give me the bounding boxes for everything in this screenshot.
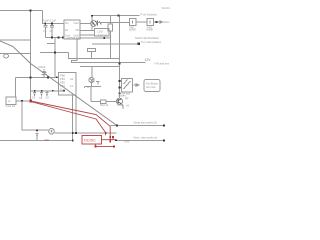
svg-text:FB: FB [76, 28, 80, 32]
svg-text:Fuse 2A: Fuse 2A [6, 104, 16, 108]
svg-text:A1: A1 [70, 84, 74, 88]
svg-text:PB2: PB2 [60, 80, 65, 84]
svg-text:Q2: Q2 [125, 96, 129, 100]
svg-text:Vesta also works (2): Vesta also works (2) [134, 121, 157, 125]
svg-text:C1: C1 [43, 29, 47, 33]
svg-text:+5: +5 [126, 104, 130, 108]
svg-text:Norm: Norm [163, 20, 169, 24]
svg-text:En: En [65, 28, 69, 32]
svg-text:C4: C4 [32, 95, 36, 99]
svg-text:100uF: 100uF [38, 65, 46, 69]
svg-text:on/off: on/off [129, 28, 136, 32]
svg-text:+5V: +5V [44, 138, 49, 142]
svg-text:3.3V reg: 3.3V reg [98, 33, 108, 37]
svg-text:To in && Updates: To in && Updates [141, 40, 162, 44]
svg-text:0.1uF: 0.1uF [117, 103, 124, 107]
svg-text:12V: 12V [145, 58, 152, 62]
svg-text:PB1: PB1 [60, 77, 65, 81]
svg-text:LDO: LDO [98, 30, 103, 34]
svg-text:+5V: +5V [124, 139, 129, 143]
svg-text:Y-IN and arm: Y-IN and arm [154, 61, 169, 65]
svg-text:on/off: on/off [147, 28, 154, 32]
svg-text:Vout: Vout [74, 21, 79, 25]
svg-text:PB3: PB3 [60, 84, 65, 88]
svg-text:C2: C2 [50, 29, 54, 33]
svg-text:A0: A0 [70, 77, 74, 81]
svg-text:10uF: 10uF [43, 19, 49, 23]
svg-text:C5: C5 [39, 96, 43, 100]
svg-text:C6: C6 [46, 95, 50, 99]
svg-text:LM2596 Reg: LM2596 Reg [66, 36, 81, 40]
svg-text:DC/DC: DC/DC [84, 139, 96, 143]
svg-text:Vin: Vin [65, 21, 69, 25]
svg-text:0.1uF: 0.1uF [50, 19, 57, 23]
svg-text:P-ch Switches: P-ch Switches [141, 13, 158, 17]
svg-text:For Blueto: For Blueto [146, 82, 159, 86]
svg-text:PB0: PB0 [60, 73, 65, 77]
svg-text:Switch && Shutdown: Switch && Shutdown [135, 36, 160, 40]
svg-text:F: F [9, 100, 11, 104]
svg-text:Gnd: Gnd [60, 87, 65, 91]
svg-text:Norm, also works ok: Norm, also works ok [134, 135, 158, 139]
svg-text:R12 1k: R12 1k [100, 103, 109, 107]
svg-text:oth mod: oth mod [146, 85, 156, 89]
svg-text:Vin/Vcc: Vin/Vcc [162, 6, 171, 10]
